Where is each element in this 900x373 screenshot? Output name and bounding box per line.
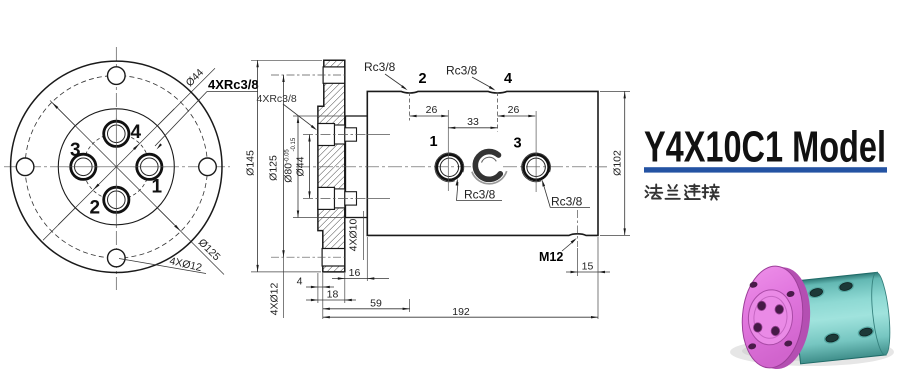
cylinder port holes [808, 286, 825, 299]
port 3 section circle [522, 153, 551, 182]
section main axis over body [296, 166, 607, 168]
svg-text:-0.15: -0.15 [291, 137, 297, 151]
dim 33 [448, 127, 497, 129]
svg-text:15: 15 [582, 261, 594, 273]
svg-text:Rc3/8: Rc3/8 [364, 60, 396, 74]
svg-text:1: 1 [152, 177, 163, 198]
C logo watermark [477, 154, 501, 178]
extension lines bottom [317, 273, 319, 303]
dim 15 [577, 248, 579, 276]
stub centerline y=134.5 [303, 134, 384, 136]
port 4 front view [104, 121, 129, 146]
svg-text:4XRc3/8: 4XRc3/8 [208, 77, 259, 92]
svg-text:3: 3 [514, 136, 522, 152]
svg-text:4: 4 [504, 71, 512, 87]
flange port hole at y=134.5 [318, 124, 335, 146]
3d pink flange [738, 264, 814, 372]
diagonal centerline NE-SW [43, 68, 215, 240]
dia145 dimension [251, 59, 322, 61]
bolt hole E 4xd12 [199, 158, 217, 176]
3d teal cylinder [792, 272, 893, 364]
svg-text:18: 18 [327, 289, 339, 301]
flange bottom bolt hole band [322, 249, 345, 267]
dim 192 [323, 316, 598, 318]
4Xd12 leader label [119, 259, 206, 274]
svg-text:4: 4 [297, 276, 303, 288]
svg-text:4XØ10: 4XØ10 [348, 219, 360, 252]
svg-text:16: 16 [349, 267, 361, 279]
dim 26 right [498, 115, 536, 117]
dim 4 [306, 286, 334, 288]
svg-text:Ø44: Ø44 [295, 156, 307, 176]
bolt circle dia125 dashed [25, 76, 207, 258]
flange cross-section hatched body [318, 60, 345, 272]
port 1 vertical centerline [447, 110, 449, 191]
svg-text:33: 33 [467, 116, 479, 128]
blue underline [644, 167, 887, 172]
svg-text:4: 4 [131, 122, 142, 143]
svg-text:Ø44: Ø44 [184, 67, 207, 90]
dim 26 left [410, 115, 449, 117]
subtitle fa lan lian jie [646, 185, 719, 200]
svg-text:192: 192 [452, 306, 470, 318]
port 1 front view [137, 154, 162, 179]
svg-text:Ø80-0.05: Ø80-0.05 [283, 149, 295, 183]
stub centerline y=198.4 [303, 197, 384, 199]
svg-text:Rc3/8: Rc3/8 [446, 64, 478, 78]
section main axis centerline [296, 166, 607, 168]
svg-text:2: 2 [419, 71, 427, 87]
bolt hole S 4xd12 [108, 249, 126, 267]
M12 hole centerline [577, 210, 579, 247]
dia44 dimension arrows on NE diagonal [133, 144, 140, 151]
left view vertical centerline [115, 47, 117, 290]
svg-text:3: 3 [70, 140, 81, 161]
Rc3/8 leader port1 [457, 200, 503, 202]
flange outer circle [11, 61, 222, 272]
dia125 dimension arrows on NW diagonal [52, 102, 59, 109]
port 3 front view [71, 154, 96, 179]
svg-text:26: 26 [508, 104, 520, 116]
svg-text:Ø145: Ø145 [245, 150, 257, 176]
4Xd12 callout vertical [283, 257, 285, 318]
hub dia80 between flange and body [346, 116, 368, 218]
inner circle dia80 [58, 109, 174, 225]
svg-text:4XRc3/8: 4XRc3/8 [257, 93, 297, 105]
svg-text:Rc3/8: Rc3/8 [551, 195, 583, 209]
svg-text:Rc3/8: Rc3/8 [464, 188, 496, 202]
svg-text:59: 59 [370, 298, 382, 310]
flange port hole at y=198.4 [318, 187, 335, 209]
svg-text:Ø125: Ø125 [268, 155, 280, 181]
dim 16 [332, 278, 389, 280]
dim 18 [306, 299, 356, 301]
dim 59 [323, 308, 410, 310]
flange top bolt hole band [323, 67, 345, 83]
port bolt circle dia44 dashed [83, 134, 149, 200]
svg-text:2: 2 [90, 198, 101, 219]
dia44 dimension [309, 135, 311, 199]
svg-text:1: 1 [430, 134, 438, 150]
left view horizontal centerline [4, 166, 230, 168]
dia80 dimension with tolerance [293, 115, 345, 117]
diagonal centerlines inside inner circle [58, 109, 174, 225]
bolt hole W 4xd12 [16, 158, 34, 176]
3d model shadow [730, 338, 894, 366]
4Xd10 label vertical [363, 211, 365, 260]
bolt hole N 4xd12 [108, 67, 126, 85]
svg-text:Y4X10C1 Model: Y4X10C1 Model [644, 123, 886, 172]
svg-text:M12: M12 [539, 250, 563, 264]
stub centerline extensions over body edge [367, 134, 390, 136]
diagonal centerline NW-SE with dia125 dimension [50, 101, 224, 275]
svg-text:4XØ12: 4XØ12 [269, 283, 281, 316]
top port 2 dashed centerline [409, 92, 411, 121]
port 1 section circle [435, 153, 464, 182]
svg-text:Ø102: Ø102 [612, 150, 624, 176]
dia125 dimension [271, 74, 345, 76]
port 2 front view [104, 187, 129, 212]
port 3 vertical centerline [535, 111, 537, 192]
main body outline with port dips [367, 91, 598, 235]
top port 4 dashed centerline [497, 92, 499, 132]
svg-text:26: 26 [426, 104, 438, 116]
dia102 dimension right [600, 90, 630, 92]
svg-text:4XØ12: 4XØ12 [168, 255, 203, 274]
Rc3/8 leader port3 [550, 207, 590, 209]
